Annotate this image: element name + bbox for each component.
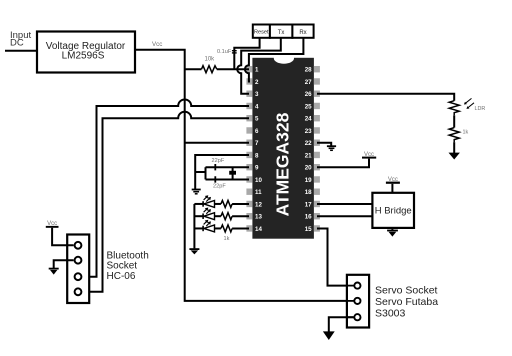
LED D2 row (pin13) (194, 208, 221, 220)
photoresistor LDR arrows (464, 98, 474, 109)
svg-text:26: 26 (305, 91, 312, 98)
servo socket J2 box (347, 275, 369, 328)
wire Vcc to bluetooth pin1 (52, 228, 74, 246)
svg-text:14: 14 (255, 226, 262, 233)
svg-text:27: 27 (305, 79, 312, 86)
wire pin17 to H bridge (317, 203, 373, 205)
svg-text:3: 3 (255, 91, 259, 98)
wire R4 to pin14 (232, 227, 249, 229)
resistor R5 1k zigzag (449, 128, 459, 143)
svg-text:4: 4 (255, 103, 259, 110)
svg-text:21: 21 (305, 152, 312, 159)
power Vcc symbol (pin20) (362, 152, 376, 159)
wire pin20 to Vcc (317, 159, 369, 168)
svg-text:24: 24 (305, 116, 312, 123)
svg-text:1: 1 (255, 67, 259, 74)
svg-text:Servo Socket: Servo Socket (375, 284, 438, 296)
svg-text:23: 23 (305, 128, 312, 135)
wire R1 to pin1 (217, 68, 249, 70)
servo socket pin3 circle (347, 314, 361, 320)
bluetooth socket J1 box (67, 235, 89, 304)
wire LED bus vertical (193, 204, 195, 248)
wire Vcc branch to pin7 (185, 142, 249, 144)
svg-text:5: 5 (255, 116, 259, 123)
svg-text:1k: 1k (463, 130, 469, 136)
LED D1 row (pin12) (194, 195, 221, 207)
power Vcc symbol (H bridge) (386, 177, 400, 193)
svg-text:LDR: LDR (475, 106, 486, 112)
wire Vcc branch to 10k resistor (185, 68, 202, 70)
svg-text:Reset: Reset (254, 30, 269, 36)
wire Rx box to pin2 with hop over pin1 wire (245, 38, 304, 82)
header Reset box (253, 25, 270, 38)
wire input to regulator (5, 50, 37, 52)
header Tx box (270, 25, 293, 38)
svg-text:7: 7 (255, 140, 259, 147)
ground GND2 (LED bus) (189, 248, 199, 254)
resistor R1 10k zigzag (202, 66, 217, 73)
wire R2 to pin12 (232, 203, 249, 205)
svg-text:16: 16 (305, 214, 312, 221)
wire pin9 crystal loop top (206, 166, 250, 168)
svg-text:DC: DC (10, 37, 24, 48)
wire bluetooth pin4 to chip pin5 with hop over Vcc rail (82, 112, 249, 292)
resistor R4 (pin14) 1k (221, 225, 232, 232)
servo socket label (375, 284, 438, 319)
svg-text:20: 20 (305, 165, 312, 172)
svg-text:2: 2 (255, 79, 259, 86)
wire pin22 to ground (317, 143, 331, 146)
IC U1 left pin stubs (246, 66, 252, 232)
IC U1 right pin numbers 28-15 (305, 67, 312, 233)
svg-text:22pF: 22pF (213, 184, 226, 190)
power Vcc symbol (bluetooth) (46, 221, 59, 228)
servo socket pin2 circle (347, 298, 361, 304)
svg-text:Servo Futaba: Servo Futaba (375, 296, 438, 308)
svg-text:HC-06: HC-06 (107, 271, 136, 282)
wire R3 to pin13 (232, 215, 249, 217)
svg-text:10: 10 (255, 177, 262, 184)
wire Vcc rail: regulator output right, down, to servo pin2 (135, 50, 353, 301)
wire pin26 to LDR divider (317, 94, 454, 101)
svg-text:H Bridge: H Bridge (375, 206, 412, 217)
H bridge U2 box (372, 193, 414, 228)
ground GND6 (servo, arrow style) (323, 331, 335, 340)
svg-text:1k: 1k (224, 236, 230, 242)
crystal X1 (229, 167, 236, 179)
svg-text:19: 19 (305, 177, 312, 184)
svg-text:0.1uF: 0.1uF (217, 49, 232, 55)
svg-text:Tx: Tx (278, 30, 285, 36)
wire bluetooth pin2 to ground (54, 260, 74, 268)
wire pin10 crystal loop bottom (206, 178, 250, 180)
wire pin15 to servo pin1 (317, 228, 354, 285)
svg-text:Vcc: Vcc (152, 41, 162, 48)
svg-text:28: 28 (305, 67, 312, 74)
capacitor C1 tick (214, 164, 216, 170)
ground GND7 (bluetooth) (49, 268, 59, 275)
wire R5 to ground (453, 142, 455, 153)
wire crystal loop left vertical (205, 167, 207, 179)
svg-text:6: 6 (255, 128, 259, 135)
svg-text:22: 22 (305, 140, 312, 147)
capacitor C2 tick (214, 176, 216, 182)
LED D3 row (pin14) (194, 220, 221, 232)
ground GND4 (pin22) (327, 146, 336, 150)
bluetooth socket pin2 circle (75, 257, 82, 264)
svg-text:Vcc: Vcc (364, 152, 374, 158)
wire LDR to R5 (453, 115, 455, 127)
bluetooth socket pin1 circle (75, 242, 82, 249)
voltage regulator U-REG box (37, 32, 135, 73)
wire Reset box to pin1 net (234, 38, 259, 69)
svg-text:18: 18 (305, 189, 312, 196)
svg-text:Rx: Rx (299, 30, 306, 36)
svg-text:9: 9 (255, 165, 259, 172)
svg-text:8: 8 (255, 152, 259, 159)
svg-text:25: 25 (305, 103, 312, 110)
servo socket pin1 circle (347, 283, 361, 289)
resistor R3 (pin13) (221, 213, 232, 220)
ground GND5 (H bridge) (387, 228, 398, 237)
ground GND1 (pin8/crystal) (192, 190, 201, 194)
svg-text:13: 13 (255, 214, 262, 221)
IC U1 left pin numbers 1-14 (255, 67, 262, 233)
svg-text:10k: 10k (205, 57, 216, 63)
wire pin8 to ground (195, 155, 249, 190)
wire pin16 to H bridge (317, 215, 373, 217)
svg-text:LM2596S: LM2596S (62, 50, 105, 61)
ground GND3 (LDR divider, arrow style) (449, 153, 460, 160)
svg-text:15: 15 (305, 226, 312, 233)
wire crystal loop to ground bus (195, 171, 205, 173)
bluetooth socket pin3 circle (75, 273, 82, 280)
svg-text:S3003: S3003 (375, 307, 406, 319)
svg-text:17: 17 (305, 201, 312, 208)
resistor R2 (pin12) (221, 200, 232, 207)
IC U1 notch (274, 57, 294, 63)
photoresistor LDR zigzag (449, 101, 459, 116)
wire bluetooth pin3 to chip pin4 with hop over Vcc rail (82, 99, 249, 276)
svg-text:Vcc: Vcc (388, 177, 398, 183)
IC U1 ATMEGA328 body (252, 58, 314, 239)
svg-text:22pF: 22pF (212, 158, 225, 164)
svg-text:ATMEGA328: ATMEGA328 (273, 112, 293, 216)
svg-text:11: 11 (255, 189, 262, 196)
svg-text:12: 12 (255, 201, 262, 208)
wire Tx box to pin3 with hop over pin1 wire (237, 38, 281, 94)
bluetooth socket pin4 circle (75, 288, 82, 295)
header Rx box (292, 25, 313, 38)
wire servo pin3 to ground (329, 317, 354, 332)
capacitor C-reset 0.1uF plates (232, 50, 237, 52)
IC U1 right pin stubs (314, 66, 320, 232)
bluetooth socket label (107, 251, 149, 282)
